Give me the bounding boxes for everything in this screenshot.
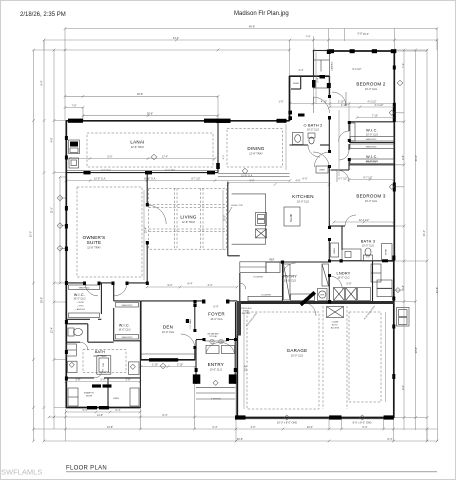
hall east wall at WICs bbox=[348, 122, 350, 132]
svg-text:W.I.C.: W.I.C. bbox=[366, 155, 378, 159]
svg-text:9'-8": 9'-8" bbox=[358, 33, 363, 36]
top dim line segments y50 bbox=[34, 49, 291, 51]
den front chain bbox=[141, 366, 195, 368]
svg-text:8'-4": 8'-4" bbox=[163, 414, 168, 417]
door arc bath closet bbox=[94, 369, 103, 378]
svg-text:5'-0": 5'-0" bbox=[101, 378, 106, 381]
tub bbox=[97, 356, 111, 375]
diamond marker left 2 bbox=[57, 223, 63, 229]
pantry door arc bbox=[283, 263, 296, 276]
owner wic2 west wall bbox=[113, 308, 115, 341]
door arc owner hall bbox=[114, 283, 127, 296]
svg-text:2'-8": 2'-8" bbox=[76, 378, 81, 381]
bath north wall bbox=[66, 341, 80, 343]
door arc bath2 exit bbox=[308, 145, 320, 157]
entry double door panels bbox=[206, 346, 219, 354]
svg-text:10'-0" CLG: 10'-0" CLG bbox=[365, 88, 377, 91]
right connector stubs bbox=[394, 51, 427, 418]
diamond marker garage window bbox=[395, 288, 400, 293]
svg-text:3'-0": 3'-0" bbox=[251, 426, 256, 429]
WIC1/WIC2 divider bbox=[349, 142, 394, 144]
bottom dim chain 3 bbox=[44, 440, 437, 442]
bottom dim chain 1 bbox=[49, 416, 237, 418]
svg-text:6'-0": 6'-0" bbox=[303, 177, 308, 180]
svg-text:9'-2": 9'-2" bbox=[168, 284, 173, 287]
wh box bbox=[318, 289, 328, 301]
svg-text:4'-0": 4'-0" bbox=[402, 385, 405, 390]
diamond marker garage door 1 bbox=[284, 415, 289, 420]
slider door lines lanai bbox=[66, 170, 218, 172]
laundry counter bbox=[358, 288, 371, 301]
hall jamb dots bbox=[328, 95, 331, 98]
svg-text:44'-2": 44'-2" bbox=[173, 37, 179, 40]
exterior wall: left side bbox=[65, 121, 67, 408]
svg-text:3'-4": 3'-4" bbox=[208, 284, 213, 287]
svg-text:SHELF/ROD: SHELF/ROD bbox=[366, 139, 377, 141]
right dim vertical 2 bbox=[415, 50, 417, 430]
svg-text:ISLAND: ISLAND bbox=[290, 214, 293, 223]
svg-text:5'-8": 5'-8" bbox=[347, 283, 352, 286]
svg-text:CLEAR: CLEAR bbox=[332, 321, 339, 324]
svg-text:14'-8": 14'-8" bbox=[107, 426, 113, 429]
svg-text:7'-2": 7'-2" bbox=[402, 63, 405, 68]
living ceiling grid dashed bbox=[149, 188, 227, 249]
exterior wall: entry right bbox=[234, 340, 236, 384]
lanai bottom wall sliders bbox=[66, 172, 218, 174]
exterior wall: bath block bottom bbox=[66, 407, 141, 409]
bath2 vanity sink bbox=[293, 133, 304, 145]
svg-text:FLOOR PLAN: FLOOR PLAN bbox=[66, 466, 107, 472]
svg-text:15'-0": 15'-0" bbox=[224, 215, 227, 221]
svg-text:REF.: REF. bbox=[270, 259, 275, 261]
owner suite east wall bbox=[146, 173, 148, 205]
svg-text:8'-4": 8'-4" bbox=[388, 438, 393, 441]
diamond marker dining bbox=[242, 168, 248, 174]
linen box hall bbox=[316, 166, 328, 173]
svg-text:10'-0" CLG: 10'-0" CLG bbox=[366, 133, 378, 136]
svg-text:10'-0" TRAY: 10'-0" TRAY bbox=[93, 355, 107, 358]
garage interior dim vert bbox=[243, 312, 245, 409]
svg-text:ACCESS: ACCESS bbox=[331, 327, 340, 330]
svg-text:10'-0" CLG: 10'-0" CLG bbox=[307, 128, 319, 131]
svg-text:4'-3 1/2": 4'-3 1/2" bbox=[374, 104, 383, 107]
exterior wall: garage left bbox=[236, 302, 238, 418]
svg-text:+ 31/36: + 31/36 bbox=[76, 302, 84, 304]
svg-text:9'-7 1/2": 9'-7 1/2" bbox=[338, 177, 347, 180]
right wall window bedroom2 bbox=[393, 103, 396, 122]
den/foyer divider bbox=[194, 302, 196, 330]
bath2 toilet bbox=[308, 133, 315, 138]
toilet room east wall bbox=[87, 324, 89, 342]
entry door wall bbox=[196, 339, 204, 341]
linen box hall2 bbox=[331, 243, 339, 257]
bath3 vanity bbox=[342, 249, 361, 261]
bath tray dashed bbox=[83, 350, 126, 373]
top connector stubs bbox=[290, 76, 350, 122]
svg-text:10'-8" O.A.: 10'-8" O.A. bbox=[241, 174, 253, 177]
right dim vertical 3 bbox=[426, 50, 428, 441]
kitchen counter outline bbox=[232, 194, 266, 244]
svg-text:SHELF/ROD: SHELF/ROD bbox=[122, 305, 133, 307]
svg-text:31'-8": 31'-8" bbox=[436, 287, 439, 293]
owner suite tray dashed bbox=[77, 187, 142, 277]
diamond marker bath bbox=[130, 364, 135, 369]
diamond marker left 3 bbox=[57, 245, 63, 251]
owner suite wall jambs bbox=[83, 282, 86, 286]
lanai/dining divider wall bbox=[217, 121, 219, 173]
svg-text:5'-4": 5'-4" bbox=[213, 426, 218, 429]
door arc garage entry bbox=[302, 302, 316, 316]
svg-text:W/H: W/H bbox=[320, 295, 324, 297]
bottom wall windows bath block bbox=[87, 406, 97, 409]
svg-text:7'-10": 7'-10" bbox=[372, 114, 378, 117]
bottom dim chain 2 bbox=[34, 428, 438, 430]
kitchen sink box bbox=[256, 213, 267, 226]
kitchen wall jambs bbox=[281, 261, 284, 264]
svg-text:SHELF/ROD: SHELF/ROD bbox=[122, 337, 133, 339]
entry bc circles bbox=[210, 339, 214, 343]
owner wic1 shelves bbox=[69, 285, 100, 290]
svg-text:10'-0" CLG: 10'-0" CLG bbox=[362, 244, 374, 247]
owner wic2 north wall bbox=[114, 300, 141, 302]
bath2 south wall bbox=[290, 144, 309, 146]
closet shelves bottom bbox=[68, 388, 78, 406]
svg-text:2'-8": 2'-8" bbox=[126, 378, 131, 381]
svg-text:10'-0" CLG: 10'-0" CLG bbox=[73, 298, 85, 301]
pool bath fixture bbox=[69, 158, 79, 168]
svg-text:TYPICAL: TYPICAL bbox=[209, 335, 218, 338]
svg-text:BATH: BATH bbox=[95, 350, 105, 354]
svg-text:12'-8" TRAY: 12'-8" TRAY bbox=[87, 246, 101, 249]
svg-text:PNTRY: PNTRY bbox=[283, 275, 297, 279]
door arc bath2 bbox=[314, 97, 330, 113]
dining corner column cluster bbox=[216, 119, 231, 123]
svg-text:8'-4": 8'-4" bbox=[188, 283, 193, 286]
diamond marker right bbox=[397, 80, 403, 86]
svg-text:28'-8": 28'-8" bbox=[147, 113, 153, 116]
exterior wall: bath block right bbox=[139, 301, 141, 408]
svg-text:LINEN: LINEN bbox=[334, 248, 336, 254]
svg-text:5'-0": 5'-0" bbox=[108, 155, 113, 158]
WIC2 bottom / bedroom3 top bbox=[349, 164, 394, 166]
diamond marker left 1 bbox=[57, 195, 63, 201]
svg-text:SHELF/ROD: SHELF/ROD bbox=[366, 147, 377, 149]
svg-text:4'-8": 4'-8" bbox=[402, 155, 405, 160]
slider jambs bbox=[84, 171, 91, 174]
chase blacks bbox=[327, 50, 331, 55]
attic access box bbox=[327, 307, 344, 318]
svg-text:3'-4": 3'-4" bbox=[299, 69, 304, 72]
gallery dim chain bbox=[147, 286, 237, 288]
butler wall bbox=[239, 273, 241, 301]
svg-text:DINING: DINING bbox=[247, 146, 264, 151]
svg-text:KITCHEN: KITCHEN bbox=[292, 194, 314, 199]
dining interior vert dim bbox=[285, 124, 287, 170]
svg-text:LNDRY: LNDRY bbox=[336, 272, 350, 276]
owner toilet bbox=[68, 328, 74, 336]
svg-text:◇ BATH 2: ◇ BATH 2 bbox=[304, 124, 323, 128]
svg-text:W.I.C.: W.I.C. bbox=[119, 324, 130, 328]
diamond marker garage door 2 bbox=[360, 415, 365, 420]
entry arch line bbox=[204, 340, 227, 342]
dryer box bbox=[346, 288, 357, 301]
entry column right bbox=[229, 374, 237, 383]
butler door arc bbox=[240, 283, 246, 289]
svg-text:14'-8": 14'-8" bbox=[97, 414, 103, 417]
svg-text:9'-0 1/2": 9'-0 1/2" bbox=[352, 68, 361, 71]
svg-text:3 RISERS: 3 RISERS bbox=[211, 399, 222, 401]
wic2 shelf strips bbox=[350, 144, 394, 149]
owner suite south wall bbox=[66, 282, 85, 284]
lanai top dim 28'-8" bbox=[65, 95, 218, 97]
svg-text:12'-4": 12'-4" bbox=[51, 327, 54, 333]
svg-text:10'-0" CLG: 10'-0" CLG bbox=[118, 328, 130, 331]
svg-text:9'-4": 9'-4" bbox=[41, 80, 44, 85]
svg-text:10'-0" CLG: 10'-0" CLG bbox=[210, 318, 222, 321]
svg-text:LANDING: LANDING bbox=[331, 61, 334, 70]
svg-text:W.I.C.: W.I.C. bbox=[366, 129, 378, 133]
svg-text:4'-8": 4'-8" bbox=[402, 285, 405, 290]
owner vestibule east wall bbox=[113, 283, 115, 301]
owner wic2 shelves bbox=[116, 303, 139, 308]
right wall window bedroom3 bbox=[393, 183, 396, 192]
bedroom3 south / bath3 north wall bbox=[329, 225, 345, 227]
lanai top wall column mid bbox=[204, 119, 217, 123]
garage right bay dashed bbox=[349, 312, 381, 402]
bedroom3 bottom dim bbox=[334, 221, 394, 223]
hall arcs to kitchen bbox=[314, 152, 329, 167]
bath chain bottom left bbox=[66, 381, 140, 383]
door arc owner toilet bbox=[80, 342, 88, 350]
svg-text:NICHE: NICHE bbox=[86, 396, 93, 398]
exterior wall: den front bbox=[140, 359, 195, 361]
svg-text:SHWR: SHWR bbox=[293, 83, 300, 85]
svg-text:LINEN: LINEN bbox=[113, 398, 119, 400]
svg-text:+ 4770: + 4770 bbox=[77, 306, 85, 308]
svg-text:5'-4": 5'-4" bbox=[363, 426, 368, 429]
entry side jambs bbox=[195, 368, 198, 372]
kitchen east / hall west wall upper bbox=[328, 76, 330, 97]
svg-text:10'-0" CLG: 10'-0" CLG bbox=[291, 354, 303, 357]
svg-text:11'-0": 11'-0" bbox=[51, 207, 54, 213]
svg-text:BEDROOM 2: BEDROOM 2 bbox=[356, 82, 386, 87]
svg-text:9'-7 1/2": 9'-7 1/2" bbox=[363, 176, 372, 179]
svg-text:LIVING: LIVING bbox=[180, 215, 197, 220]
bedroom3 top dim bbox=[349, 179, 394, 181]
top dim line 44'-2" bbox=[44, 39, 437, 41]
garage entry diagonal door bbox=[300, 291, 317, 306]
svg-text:W.I.C.: W.I.C. bbox=[74, 293, 85, 297]
svg-text:SHAMPOO: SHAMPOO bbox=[84, 392, 95, 395]
WIC1 top wall bbox=[349, 121, 394, 123]
svg-text:ATTIC: ATTIC bbox=[332, 324, 338, 327]
owner wic1 east wall bbox=[100, 283, 102, 314]
pantry west wall bbox=[282, 262, 284, 302]
svg-text:2'-0": 2'-0" bbox=[366, 257, 371, 259]
svg-text:5'-4": 5'-4" bbox=[83, 409, 88, 412]
diamond marker bedroom3 window bbox=[389, 184, 394, 189]
svg-text:8'-7 1/2": 8'-7 1/2" bbox=[191, 177, 200, 180]
kitchen east wall segments bbox=[328, 118, 330, 152]
butler lower counter bbox=[248, 296, 283, 301]
svg-text:10'-0" CLG: 10'-0" CLG bbox=[366, 160, 378, 163]
foyer east wall upper bbox=[235, 302, 237, 340]
svg-text:+ AH2024: + AH2024 bbox=[75, 308, 85, 311]
svg-text:DEN: DEN bbox=[163, 325, 173, 330]
exterior wall: entry left bbox=[195, 340, 197, 384]
bath3 south window bbox=[382, 259, 388, 262]
svg-text:8'-0" SLD: 8'-0" SLD bbox=[101, 169, 111, 171]
hall vert dim bbox=[338, 110, 340, 176]
svg-text:16'-8" O.A.: 16'-8" O.A. bbox=[144, 177, 156, 180]
svg-text:2'-10": 2'-10" bbox=[341, 104, 347, 107]
svg-text:SUITE: SUITE bbox=[87, 240, 102, 245]
left diamond chain bbox=[59, 177, 61, 283]
svg-text:BATH 3: BATH 3 bbox=[361, 240, 376, 244]
svg-text:10'-0" CLG: 10'-0" CLG bbox=[365, 200, 377, 203]
svg-text:6'-4": 6'-4" bbox=[214, 306, 219, 309]
bath3 shower bbox=[382, 244, 393, 261]
den west wall bbox=[140, 301, 142, 360]
svg-text:5'-4": 5'-4" bbox=[317, 77, 320, 82]
garage left bay dashed bbox=[247, 312, 319, 409]
left connector stubs bbox=[54, 121, 66, 408]
svg-text:COUNTER: COUNTER bbox=[261, 294, 271, 296]
dimension tick marks bbox=[32, 27, 438, 442]
svg-text:SWFLAMLS: SWFLAMLS bbox=[1, 468, 42, 477]
door arc wic2 bbox=[339, 150, 349, 160]
dining top window bbox=[277, 119, 287, 123]
svg-text:28'-8": 28'-8" bbox=[41, 297, 44, 303]
closet divider bbox=[107, 378, 109, 408]
bedroom3 hall wall bbox=[331, 169, 350, 171]
svg-text:41'-4": 41'-4" bbox=[415, 155, 418, 161]
lanai dim line y115.7 bbox=[83, 115, 218, 117]
kitchen south wall bbox=[228, 255, 240, 257]
door arc bedroom2 bbox=[332, 92, 346, 106]
bath3 south window wall segment bbox=[382, 260, 394, 262]
owner suite interior vert dim bbox=[143, 190, 145, 280]
garage door panels bbox=[246, 418, 330, 420]
svg-text:21'-8": 21'-8" bbox=[245, 365, 248, 371]
bottom extension verticals bbox=[65, 409, 67, 441]
svg-text:46'-8": 46'-8" bbox=[249, 25, 255, 28]
exterior wall: chase left bbox=[313, 51, 315, 77]
top dim line overall 46'-8" bbox=[65, 28, 437, 30]
owner water closet box bbox=[68, 361, 78, 372]
door arc bath3 bbox=[345, 215, 356, 226]
right wall garage windows bbox=[392, 297, 395, 301]
svg-text:BEYOND: BEYOND bbox=[242, 313, 251, 315]
door arc owner wic1 bbox=[85, 283, 98, 296]
bath2 vert dim bbox=[315, 52, 317, 104]
left dim vertical 3 bbox=[53, 50, 55, 429]
svg-text:LINEN: LINEN bbox=[319, 170, 325, 172]
svg-text:SHWR: SHWR bbox=[386, 248, 388, 255]
top extension verticals bbox=[64, 29, 66, 121]
door arc den bbox=[181, 334, 195, 348]
svg-text:17'-4": 17'-4" bbox=[162, 155, 168, 158]
foyer jambs bbox=[186, 319, 189, 323]
bath2 shower room bbox=[300, 76, 302, 89]
door arc suite entry bbox=[147, 205, 166, 224]
garage heavy north wall bbox=[237, 301, 394, 304]
diamond marker toilet bbox=[69, 362, 74, 367]
island bbox=[284, 207, 300, 226]
right dim vertical 1 bbox=[403, 50, 405, 430]
owner wic2 south wall bbox=[114, 340, 141, 342]
wic1 shelf strips bbox=[350, 123, 355, 141]
svg-text:4'-6": 4'-6" bbox=[296, 179, 301, 182]
left dim vertical 2 bbox=[43, 40, 45, 441]
svg-text:3'-10": 3'-10" bbox=[177, 363, 183, 366]
svg-text:10'-0" CLG: 10'-0" CLG bbox=[284, 279, 296, 282]
butler top counter bbox=[240, 262, 266, 273]
garage interior dim vert right bbox=[385, 312, 387, 402]
lanai dim 7'-8" bbox=[65, 107, 83, 109]
entry column left bbox=[193, 374, 201, 383]
svg-text:BEDROOM 3: BEDROOM 3 bbox=[356, 194, 386, 199]
dim chain under sliders bbox=[66, 180, 290, 182]
bath3 west wall bbox=[341, 226, 343, 250]
exterior wall: chase top to bedroom2 bbox=[314, 50, 330, 52]
toilet room north wall bbox=[66, 323, 88, 325]
ref box bbox=[266, 262, 280, 273]
svg-text:15'-4": 15'-4" bbox=[363, 33, 369, 36]
svg-text:12'-2 1/2": 12'-2 1/2" bbox=[359, 219, 370, 222]
svg-text:COUNTER: COUNTER bbox=[253, 276, 263, 278]
svg-text:8'-0" x 8'-0" OHD: 8'-0" x 8'-0" OHD bbox=[353, 422, 372, 425]
svg-text:23'-4": 23'-4" bbox=[307, 426, 313, 429]
diamond marker entry bbox=[213, 380, 218, 385]
svg-text:36'-8": 36'-8" bbox=[237, 438, 243, 441]
svg-text:7'-8": 7'-8" bbox=[72, 104, 77, 107]
summer kitchen grill counter bbox=[69, 140, 80, 154]
hall closet boxes right bbox=[371, 264, 381, 282]
exterior wall: garage bottom bbox=[236, 417, 394, 419]
svg-text:10'-0" CLG: 10'-0" CLG bbox=[210, 368, 222, 371]
right wall window bath3 bbox=[392, 256, 395, 261]
svg-text:31'-0": 31'-0" bbox=[423, 230, 426, 236]
svg-text:15'-4": 15'-4" bbox=[145, 227, 148, 233]
wic right dims bbox=[357, 117, 394, 119]
svg-text:LEVEL TOP: LEVEL TOP bbox=[231, 205, 243, 207]
entry porch steps bbox=[196, 386, 235, 388]
svg-text:5'-0" WALL: 5'-0" WALL bbox=[189, 318, 192, 329]
mud hall cabinets bbox=[377, 280, 392, 288]
svg-text:9'-0": 9'-0" bbox=[250, 179, 255, 182]
owner linen cabinet bbox=[66, 344, 76, 356]
exterior wall: bedroom2 top bbox=[329, 50, 395, 52]
exterior wall: bath2 bump top bbox=[289, 75, 329, 77]
left dim vertical outer bbox=[33, 50, 35, 441]
svg-text:8'-0": 8'-0" bbox=[223, 155, 225, 160]
svg-text:FOYER: FOYER bbox=[208, 312, 225, 317]
svg-text:23'-8": 23'-8" bbox=[415, 347, 418, 353]
svg-text:10'-0" CLG: 10'-0" CLG bbox=[337, 276, 349, 279]
svg-text:12'-8" TRAY: 12'-8" TRAY bbox=[182, 221, 196, 224]
exterior wall: right side lower (garage) bbox=[393, 261, 395, 418]
bath3 toilet bbox=[364, 255, 373, 261]
lanai tray dashed bbox=[87, 133, 213, 167]
svg-text:12'-0" SLD: 12'-0" SLD bbox=[165, 169, 176, 171]
exterior wall: right side bbox=[393, 51, 395, 261]
foyer bearing wall heavy bbox=[237, 301, 241, 336]
svg-text:1'-6": 1'-6" bbox=[279, 100, 284, 103]
kitchen-living half wall bbox=[227, 182, 229, 256]
svg-text:4'-8": 4'-8" bbox=[51, 137, 54, 142]
svg-text:31'-0": 31'-0" bbox=[30, 231, 33, 237]
